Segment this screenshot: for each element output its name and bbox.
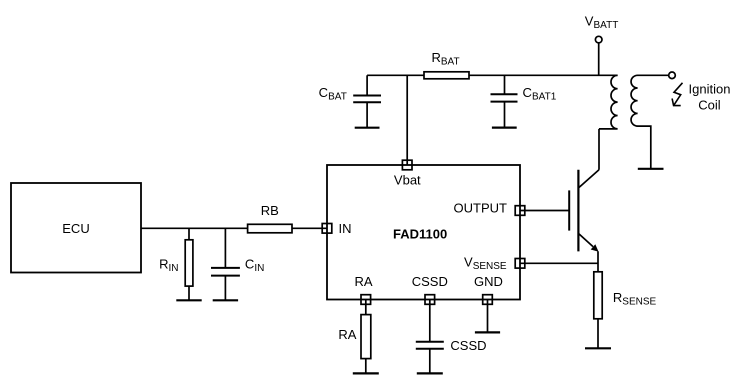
svg-text:BATT: BATT (594, 20, 619, 31)
svg-text:IN: IN (254, 263, 264, 274)
ground under secondary winding (638, 168, 664, 170)
node ignition coil HV terminal (669, 72, 676, 79)
pin CSSD (412, 274, 448, 304)
svg-text:RA: RA (338, 327, 356, 342)
ground under RA (353, 372, 379, 374)
capacitor C_BAT (319, 75, 381, 127)
inductor L2 ignition coil secondary winding (631, 75, 669, 169)
wire V_SENSE to emitter (520, 262, 598, 264)
wire Vbat pin to bus (406, 75, 408, 165)
svg-text:CSSD: CSSD (450, 338, 486, 353)
IC U1 FAD1100 block (327, 165, 520, 300)
svg-text:V: V (585, 14, 594, 29)
svg-text:Coil: Coil (698, 98, 721, 113)
svg-text:R: R (613, 290, 622, 305)
pin RA (354, 274, 372, 304)
svg-text:GND: GND (474, 274, 503, 289)
ground under R_SENSE (585, 347, 611, 349)
wire ECU output to RB (141, 227, 248, 229)
pin IN (322, 221, 351, 236)
svg-text:SENSE: SENSE (622, 297, 656, 308)
svg-text:V: V (464, 255, 473, 270)
spark arrow icon (672, 83, 682, 106)
svg-text:RA: RA (354, 274, 372, 289)
svg-text:OUTPUT: OUTPUT (454, 201, 508, 216)
svg-text:R: R (159, 257, 168, 272)
pin OUTPUT (454, 201, 525, 216)
svg-text:R: R (432, 50, 441, 65)
ground under C_IN (213, 299, 238, 301)
pin V_SENSE (464, 255, 525, 273)
ground under R_IN (176, 299, 201, 301)
wire GND pin to ground (487, 300, 489, 333)
resistor R_SENSE (594, 272, 657, 349)
ECU block (11, 183, 141, 273)
wire emitter down to R_SENSE (597, 251, 599, 271)
svg-text:ECU: ECU (62, 221, 89, 236)
wire OUTPUT to gate (520, 210, 569, 212)
svg-text:BAT1: BAT1 (532, 92, 557, 103)
top supply bus wire (367, 74, 617, 76)
svg-text:FAD1100: FAD1100 (393, 226, 447, 241)
svg-text:C: C (319, 85, 328, 100)
label Ignition Coil (689, 82, 731, 113)
ground under C_BAT (355, 127, 380, 129)
svg-text:SENSE: SENSE (473, 261, 507, 272)
svg-text:C: C (245, 257, 254, 272)
pin Vbat (394, 160, 421, 187)
ground under C_BAT1 (492, 126, 517, 128)
capacitor C_BAT1 (491, 75, 557, 127)
svg-text:Vbat: Vbat (394, 172, 421, 187)
svg-text:BAT: BAT (441, 57, 460, 68)
resistor R_IN (159, 228, 193, 300)
svg-text:CSSD: CSSD (412, 274, 448, 289)
transistor Q1 IGBT (569, 170, 599, 252)
node V_BATT terminal (585, 14, 619, 76)
pin GND (474, 274, 503, 304)
resistor R_BAT (424, 50, 469, 79)
svg-text:C: C (523, 85, 532, 100)
wire RB to IN pin (292, 227, 327, 229)
ground under GND pin (475, 331, 500, 333)
wire primary winding to IGBT collector (598, 129, 600, 170)
capacitor C_IN (211, 228, 264, 300)
svg-text:RB: RB (261, 203, 279, 218)
resistor RA (338, 300, 370, 374)
svg-text:Ignition: Ignition (689, 82, 731, 97)
ground under CSSD (417, 372, 443, 374)
svg-text:IN: IN (339, 221, 352, 236)
inductor L1 ignition coil primary winding (599, 75, 618, 129)
resistor RB (248, 203, 292, 233)
svg-text:IN: IN (169, 263, 179, 274)
capacitor CSSD (416, 300, 487, 374)
svg-text:BAT: BAT (328, 92, 347, 103)
